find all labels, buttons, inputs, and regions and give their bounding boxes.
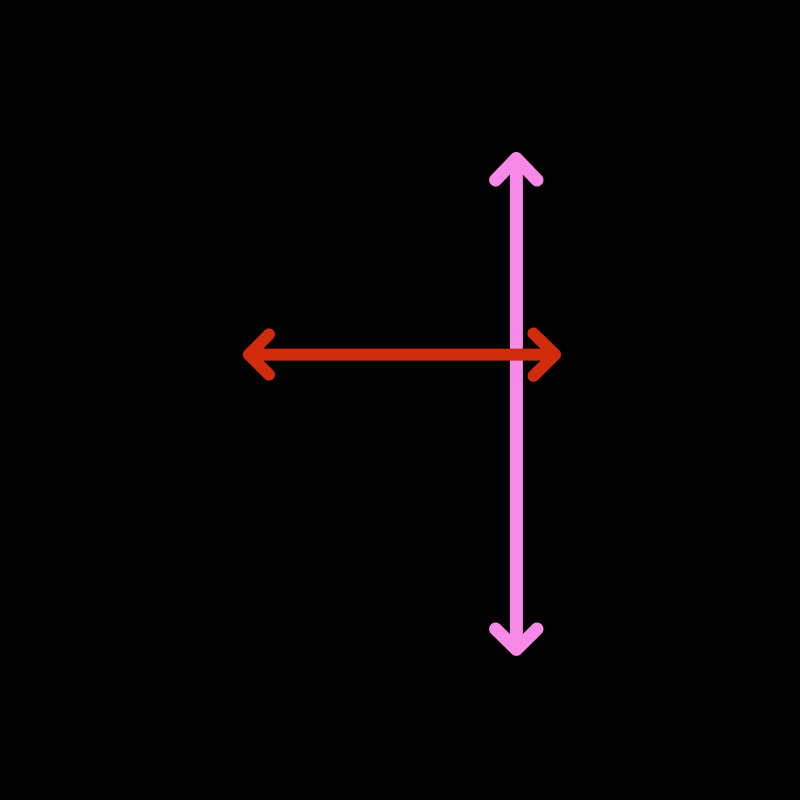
arrowhead top (chevron) (496, 159, 537, 181)
pink vertical double-headed arrow (496, 159, 537, 650)
arrowhead right (chevron) (534, 334, 556, 376)
wire: horizontal shaft (256, 349, 548, 361)
wire: vertical shaft (510, 164, 523, 644)
red horizontal double-headed arrow (249, 334, 555, 376)
arrowhead bottom (chevron) (496, 629, 537, 649)
arrowhead left (chevron) (249, 334, 269, 374)
